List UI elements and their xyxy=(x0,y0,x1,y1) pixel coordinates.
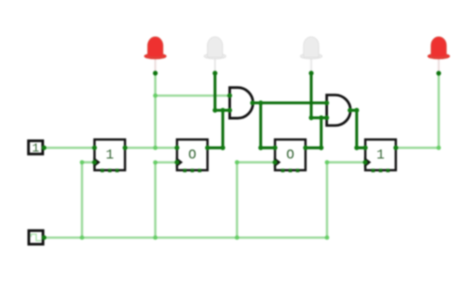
pin FF1 CK xyxy=(92,160,97,165)
wire clock branch to FF1 CK xyxy=(82,162,95,237)
pin AND1 out xyxy=(250,101,255,106)
pin AND1 in B xyxy=(227,108,232,113)
wire AND1 output to AND2 input A xyxy=(253,102,327,105)
wire AND1 output branch to FF3 D xyxy=(261,103,275,148)
LED L4 lit red xyxy=(428,37,450,71)
wire clock branch to FF2 CK xyxy=(155,162,177,237)
node dark: LED2 corner xyxy=(213,108,218,113)
node light: FF3 CK corner xyxy=(235,160,239,164)
node dark: FF4 D corner xyxy=(354,145,359,150)
node light: FF1Q x LED1 drop junction xyxy=(153,93,157,97)
pin LED2 xyxy=(213,71,218,76)
clock input CLK xyxy=(29,231,43,245)
node dark: LED3 corner xyxy=(309,115,314,120)
pin FF4 D xyxy=(363,145,368,150)
svg-text:O: O xyxy=(188,149,196,164)
node light: bus corner at x327 xyxy=(325,235,329,239)
node dark: FF3 Q tee xyxy=(319,115,324,120)
wire LED2 node to AND1 input B xyxy=(215,109,230,112)
wire clock bus horizontal xyxy=(44,236,327,238)
svg-text:O: O xyxy=(286,149,294,164)
pin FF1 D xyxy=(92,145,97,150)
svg-text:1: 1 xyxy=(377,149,385,164)
pin LED3 xyxy=(309,71,314,76)
wire FF1 Q to FF2 D (net=1) xyxy=(125,147,177,149)
wire FF3 Q up to AND2 input B net xyxy=(306,118,322,148)
node dark: AND2 out corner xyxy=(354,108,359,113)
LED L1 lit red xyxy=(144,37,166,71)
pin LED1 xyxy=(153,71,158,76)
pin AND2 in A xyxy=(324,101,329,106)
wire LED1 drop from pin to FF1 Q net xyxy=(154,73,156,148)
pin AND2 in B xyxy=(324,115,329,120)
svg-text:1: 1 xyxy=(32,141,39,155)
wire LED2 drop (net=0) xyxy=(214,73,217,110)
node dark: FF2 Q tee xyxy=(220,108,225,113)
AND gate U1 xyxy=(230,88,253,119)
wire clock branch to FF3 CK xyxy=(237,162,275,237)
pin FF4 Q xyxy=(393,145,398,150)
pin CLK out xyxy=(42,235,47,240)
pin LED4 xyxy=(436,71,441,76)
node light: FF2 CK corner xyxy=(153,160,157,164)
wire IN1 to FF1 D (net=1) xyxy=(44,147,95,149)
wire clock branch to FF4 CK xyxy=(327,162,365,237)
node light: FF1 CK corner xyxy=(80,160,84,164)
D flip-flop FF4 state 1 xyxy=(364,140,396,173)
node dark: FF3 Q corner xyxy=(319,145,324,150)
node dark: FF3 D corner xyxy=(258,145,263,150)
pin IN1 out xyxy=(42,145,47,150)
input switch IN1 value 1 xyxy=(29,141,43,156)
node light: bus tee at x82 xyxy=(80,235,84,239)
node light: LED1 drop on Q wire xyxy=(153,146,157,150)
D flip-flop FF2 state 0 xyxy=(176,140,208,173)
pin FF2 Q xyxy=(205,145,210,150)
wire FF4 Q to LED4 xyxy=(396,73,439,148)
D flip-flop FF1 state 1 xyxy=(93,140,125,173)
node light: LED4 corner xyxy=(437,146,441,150)
node dark: AND1 out tee xyxy=(258,101,263,106)
node light: FF4 CK corner xyxy=(325,160,329,164)
wire FF1 Q branch to AND1 input A xyxy=(155,94,229,96)
pin FF4 CK xyxy=(363,160,368,165)
node light: bus tee at x155 xyxy=(153,235,157,239)
pin FF3 D xyxy=(273,145,278,150)
wire AND2 output to FF4 D xyxy=(351,110,366,148)
pin AND1 in A xyxy=(227,93,232,98)
pin FF1 Q xyxy=(123,145,128,150)
LED L2 off gray xyxy=(204,37,226,71)
svg-text:1: 1 xyxy=(106,149,114,164)
AND gate U2 xyxy=(327,95,351,126)
LED L3 off gray xyxy=(300,37,322,71)
wire LED3 node to AND2 input B xyxy=(311,116,327,119)
wire FF2 Q up to AND1 input B net xyxy=(208,110,223,148)
pin FF3 Q xyxy=(303,145,308,150)
pin AND2 out xyxy=(348,108,353,113)
pin FF3 CK xyxy=(273,160,278,165)
node dark: FF2 Q corner xyxy=(220,145,225,150)
wire LED3 drop (net=0) xyxy=(310,73,313,118)
pin FF2 D xyxy=(175,145,180,150)
D flip-flop FF3 state 0 xyxy=(274,140,306,173)
pin FF2 CK xyxy=(175,160,180,165)
node light: bus tee at x237 xyxy=(235,235,239,239)
